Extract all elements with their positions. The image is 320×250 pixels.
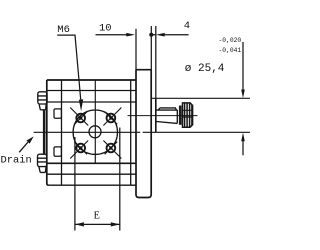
diameter 25,4 leader upper arrow [242, 42, 244, 90]
shaft nut [183, 103, 193, 127]
Drain leader with arrow [19, 142, 28, 152]
body internal horizontal y101.2 [47, 101, 136, 103]
dimension 4 line with arrow [151, 34, 188, 36]
horizontal centerline y132.5 (drain port line + spigot bottom ext) [34, 131, 250, 133]
body internal vertical x61.5 [61, 80, 63, 185]
svg-text:4: 4 [184, 20, 190, 32]
svg-text:M6: M6 [57, 24, 70, 36]
svg-text:ø 25,4: ø 25,4 [185, 63, 225, 75]
mounting flange plate (side) [136, 70, 151, 198]
svg-text:-0,041: -0,041 [219, 47, 242, 54]
spigot top edge + dimension extension line y98.3 [151, 97, 250, 99]
body port slab line [47, 174, 136, 185]
port square bottom [54, 147, 61, 156]
bottom drain plug fitting [38, 154, 47, 172]
bolt hole bottom-right [103, 141, 121, 159]
drain valve bar on left edge [43, 110, 46, 155]
bolt hole bottom-left [70, 141, 88, 159]
extension line from flange left edge (x136.2) [135, 29, 137, 70]
extension line from spigot face (x155.7) [155, 26, 157, 98]
bolt hole top-left [70, 108, 88, 126]
shaft washer [179, 106, 182, 125]
svg-text:-0,020: -0,020 [219, 37, 242, 44]
dimension origin dot [149, 33, 153, 37]
pump body outline [47, 80, 136, 185]
M6 leader with arrow [57, 35, 80, 99]
E dimension extension lines [75, 128, 120, 231]
svg-text:Drain: Drain [1, 155, 32, 167]
cover line x130.7 [130, 80, 132, 185]
shaft centerline [128, 115, 198, 117]
extension line from flange right edge (x151.35) [150, 26, 152, 70]
shaft with key [156, 108, 177, 124]
body internal vertical x95.3 (vertical centerline) [94, 80, 96, 163]
body internal horizontal y90.6 [47, 90, 136, 92]
svg-text:10: 10 [99, 23, 112, 35]
port square top [54, 109, 61, 118]
bolt hole top-right [103, 108, 121, 126]
E dimension line with arrows [75, 223, 120, 225]
svg-text:E: E [94, 211, 100, 222]
pilot spigot [155, 98, 157, 132]
diameter 25,4 leader lower arrow [242, 141, 244, 155]
top drain plug fitting [38, 92, 47, 110]
shaft bore circle [89, 126, 101, 138]
mounting pilot circle [73, 110, 117, 154]
dimension 10 line with arrow [96, 34, 128, 36]
